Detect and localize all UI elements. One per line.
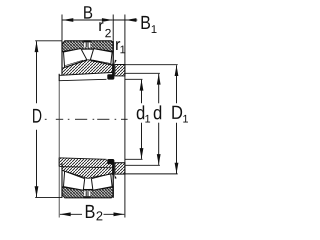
dimension B1 line with outside arrow bbox=[113, 15, 137, 218]
bearing right face line (upper) bbox=[112, 41, 114, 78]
label D bbox=[33, 109, 41, 123]
bearing right face line (lower) bbox=[112, 161, 114, 198]
sleeve left end (lower) bbox=[59, 158, 106, 167]
label r2 bbox=[99, 22, 110, 37]
roller row right (lower) bbox=[91, 174, 112, 191]
sleeve threaded end (lower) bbox=[107, 159, 114, 164]
outer ring (upper section) bbox=[62, 41, 113, 52]
d1 reference line lower bbox=[125, 158, 143, 160]
cage line left (upper) bbox=[65, 60, 83, 66]
cage line right (upper) bbox=[93, 60, 110, 63]
inner ring (upper section) bbox=[62, 60, 113, 75]
d reference line lower bbox=[125, 164, 160, 166]
r1 leader arrow bbox=[114, 60, 117, 64]
d reference line upper bbox=[125, 72, 160, 74]
label d1 bbox=[137, 105, 150, 122]
dimension B2 with extension lines and arrows bbox=[59, 81, 124, 218]
D1 reference line lower bbox=[125, 173, 178, 175]
sleeve left end (upper) bbox=[59, 74, 106, 81]
r1 leader arrow mirrored (lower) bbox=[114, 174, 117, 178]
label B bbox=[84, 6, 92, 18]
roller row left (upper) bbox=[64, 49, 87, 68]
dimension d vertical line with arrows bbox=[157, 74, 161, 165]
label r1 bbox=[116, 41, 125, 53]
sleeve threaded end (upper) bbox=[107, 74, 114, 79]
outer ring (lower section) bbox=[62, 187, 113, 198]
D1 reference line upper bbox=[125, 64, 178, 66]
dimension d1 vertical line with arrows bbox=[140, 80, 144, 159]
label B2 bbox=[86, 205, 103, 220]
locknut (upper section) bbox=[115, 65, 125, 76]
bearing left face line (lower) bbox=[61, 163, 63, 197]
lubrication hole and groove (lower) bbox=[83, 191, 90, 198]
dimension D with extension lines and arrows bbox=[35, 41, 62, 198]
sleeve body hatched strip (lower) bbox=[59, 158, 113, 167]
roller row left (lower) bbox=[64, 171, 85, 190]
bearing left face line (upper) bbox=[61, 41, 63, 75]
label d bbox=[154, 105, 162, 119]
centerline (bearing axis) bbox=[45, 118, 128, 120]
inner ring (lower section) bbox=[62, 167, 113, 179]
label B1 bbox=[142, 16, 157, 33]
label D1 bbox=[172, 106, 188, 123]
d1 reference line upper bbox=[125, 78, 143, 80]
dimension B with extension lines and arrows bbox=[62, 15, 113, 41]
roller row right (upper) bbox=[90, 49, 112, 65]
dimension D1 vertical line with arrows bbox=[175, 65, 179, 173]
lubrication hole and groove (upper) bbox=[83, 40, 90, 47]
locknut (lower section) bbox=[115, 163, 125, 174]
